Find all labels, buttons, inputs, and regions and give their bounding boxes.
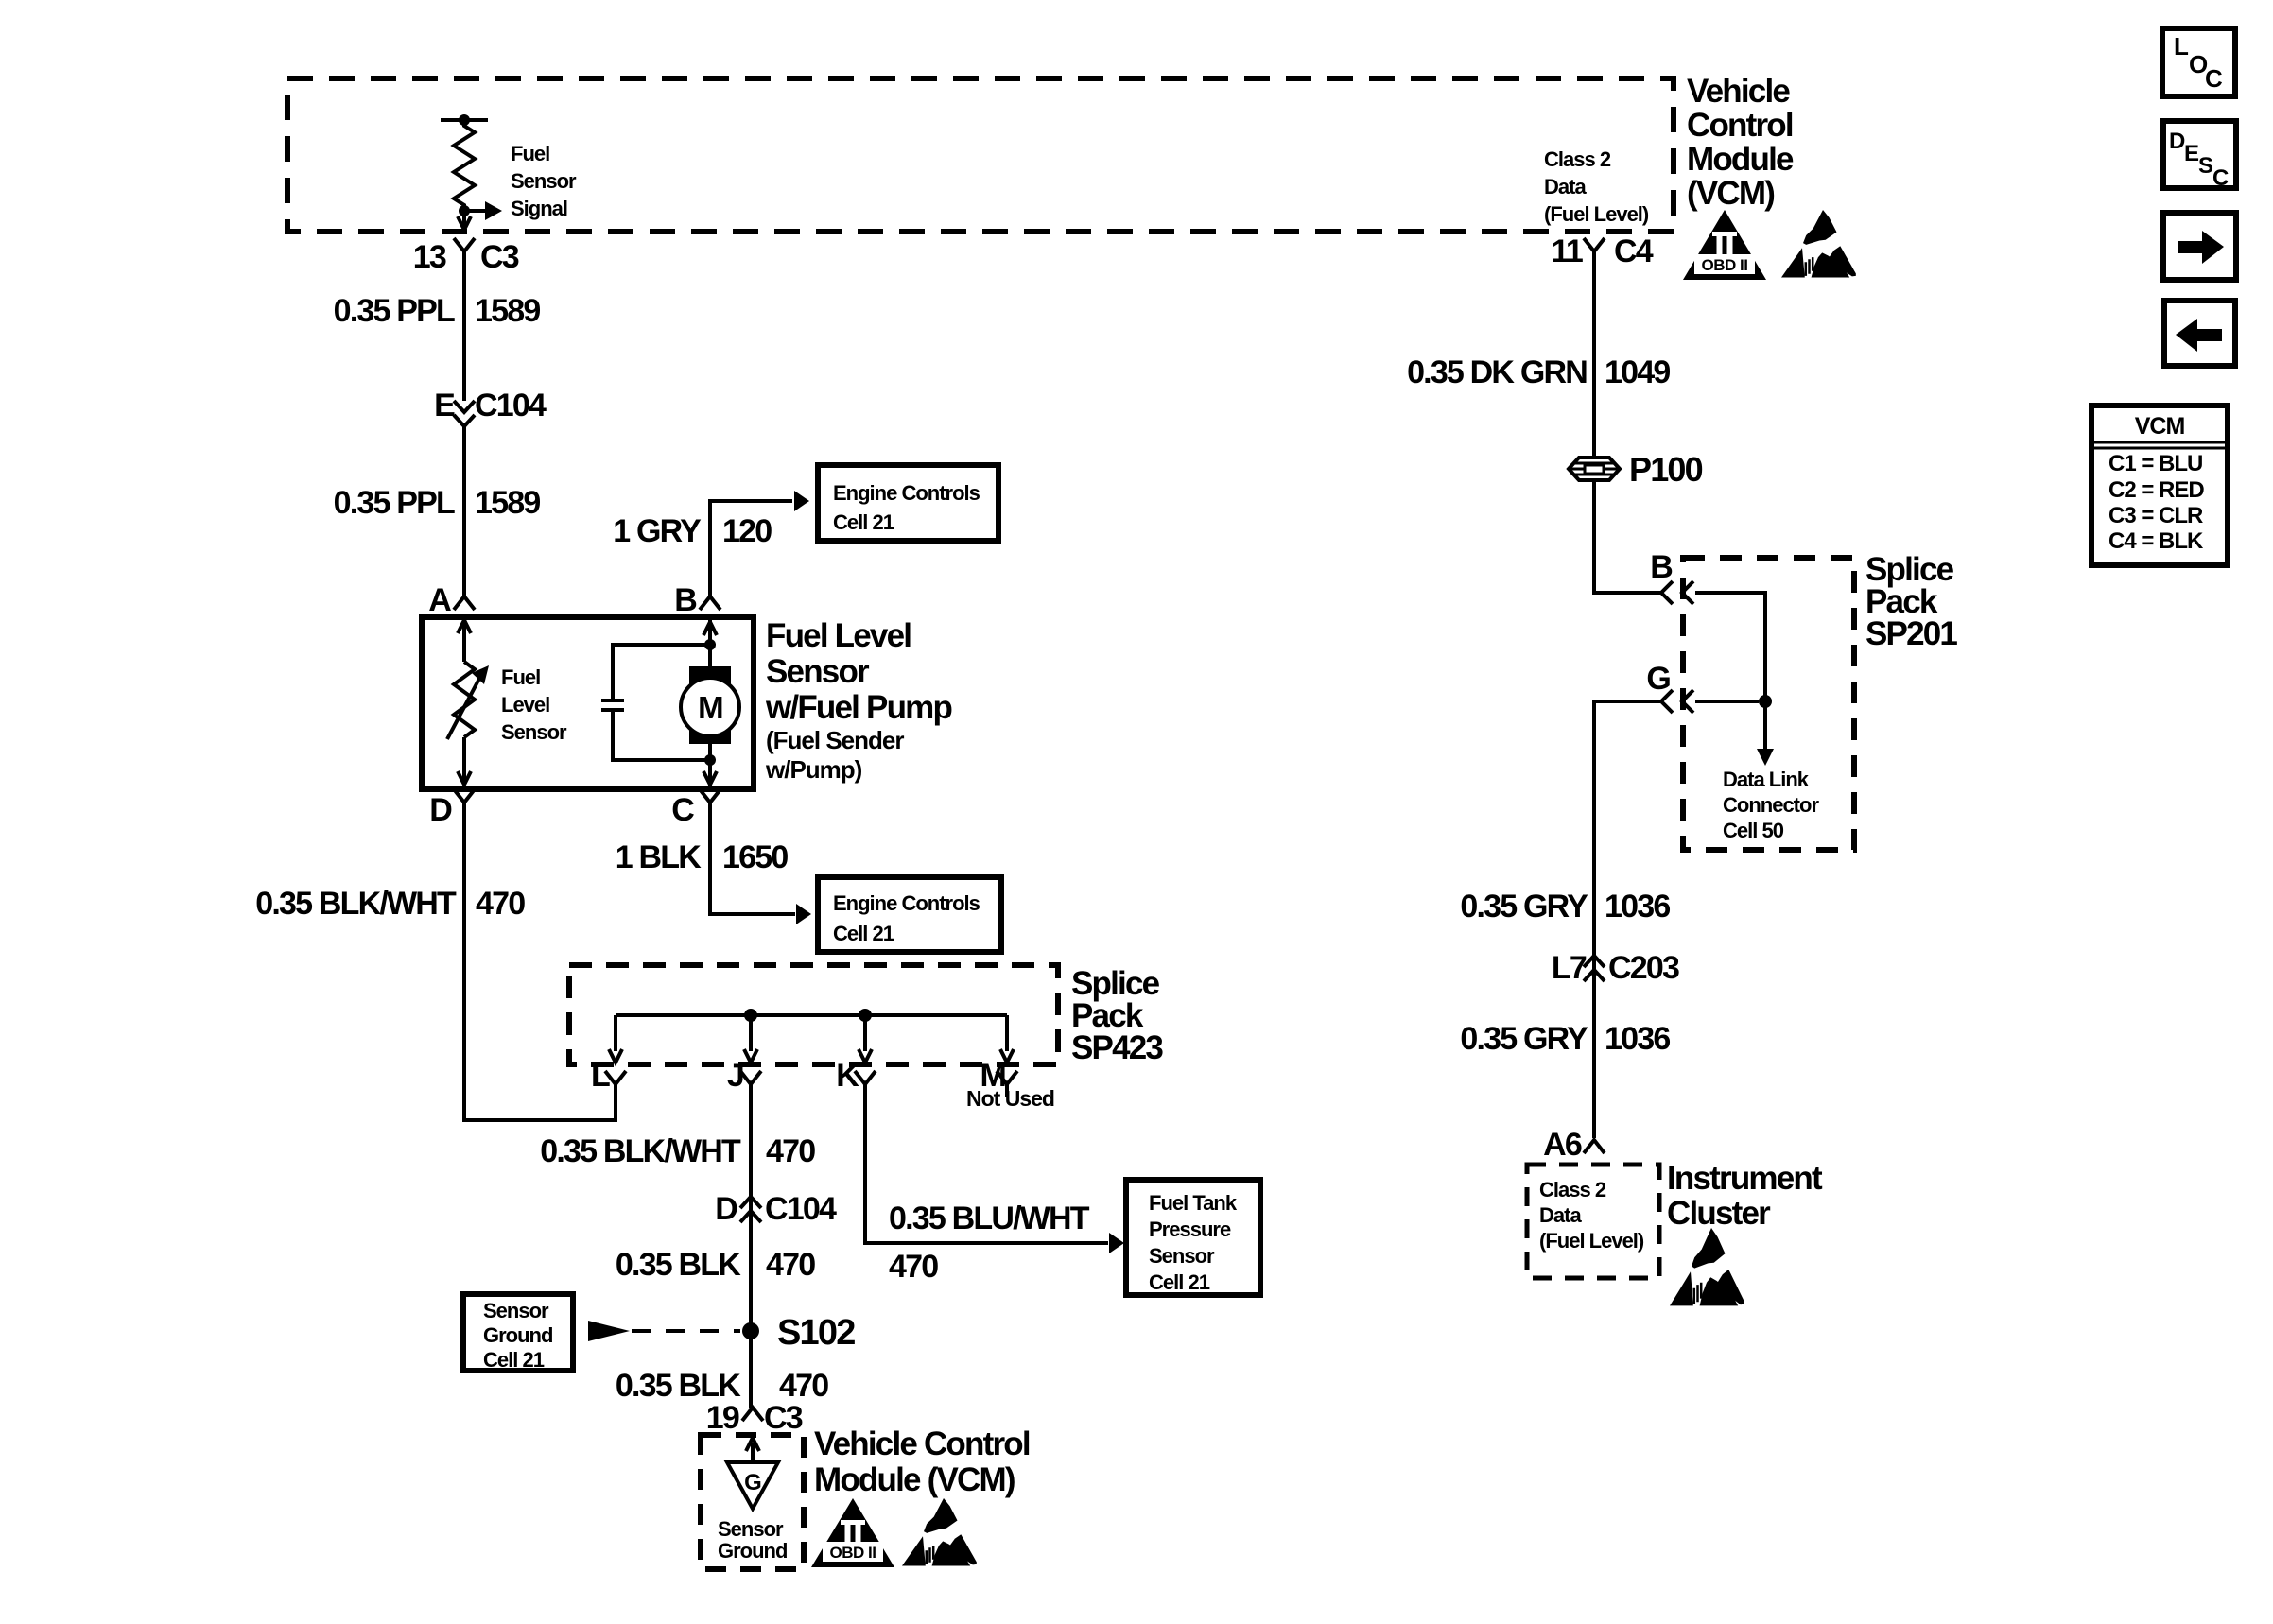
vehicle control module bottom dashed box: [701, 1435, 804, 1569]
svg-text:Cell 21: Cell 21: [1149, 1270, 1210, 1294]
fuel level sensor w/fuel pump component box: [422, 617, 754, 789]
svg-text:1 BLK: 1 BLK: [616, 839, 702, 875]
svg-text:M: M: [698, 690, 722, 725]
svg-text:C: C: [2205, 64, 2223, 93]
arrowhead from sensor ground ref: [588, 1321, 630, 1341]
svg-text:(VCM): (VCM): [1687, 175, 1774, 212]
resistor: fuel sensor signal pull-up, top bar with junction: [441, 118, 488, 122]
svg-text:Sensor: Sensor: [766, 653, 870, 690]
svg-text:Class 2: Class 2: [1539, 1178, 1606, 1201]
svg-text:Connector: Connector: [1723, 793, 1819, 817]
variable resistor fuel level sensor zigzag: [454, 662, 475, 737]
wire SP201 down to data link connector: [1763, 703, 1767, 751]
svg-text:Cell 21: Cell 21: [833, 922, 894, 945]
svg-text:(Fuel Sender: (Fuel Sender: [766, 726, 904, 754]
svg-text:Module: Module: [1687, 141, 1794, 178]
svg-text:C4 = BLK: C4 = BLK: [2108, 528, 2204, 554]
fuel pump motor M: [689, 666, 731, 744]
svg-text:0.35 PPL: 0.35 PPL: [334, 293, 455, 329]
svg-text:Fuel Level: Fuel Level: [766, 617, 911, 654]
wire 11C4 to P100: [1592, 265, 1596, 457]
splice S102 junction dot: [742, 1322, 759, 1339]
bus arrow K: [863, 1015, 867, 1051]
svg-text:Data Link: Data Link: [1723, 768, 1810, 791]
arrowhead into fuel tank pressure sensor: [1109, 1233, 1124, 1253]
svg-text:w/Pump): w/Pump): [765, 755, 862, 784]
OBD II symbol bottom: [811, 1498, 894, 1567]
svg-text:C104: C104: [765, 1191, 837, 1227]
svg-text:Class 2: Class 2: [1544, 147, 1611, 171]
svg-text:Ground: Ground: [718, 1539, 787, 1563]
svg-text:Fuel Tank: Fuel Tank: [1149, 1191, 1238, 1215]
VCM connector color legend table: [2091, 406, 2228, 565]
svg-text:0.35 GRY: 0.35 GRY: [1460, 889, 1588, 924]
OBD II symbol top: [1683, 210, 1766, 280]
bus arrow L: [614, 1015, 617, 1051]
svg-text:11: 11: [1552, 233, 1583, 269]
svg-text:C1 = BLU: C1 = BLU: [2108, 451, 2202, 476]
svg-text:0.35 DK GRN: 0.35 DK GRN: [1407, 354, 1587, 390]
svg-text:SP423: SP423: [1071, 1029, 1163, 1066]
junction dot motor top: [704, 639, 716, 650]
SP423 bus wire: [616, 1013, 1007, 1017]
down arrow at VCM box edge: [458, 216, 471, 230]
wire terminal B up to engine controls: [710, 501, 792, 596]
ESD symbol bottom: [902, 1498, 977, 1566]
svg-text:L7: L7: [1552, 950, 1587, 986]
arrowhead into engine controls 1: [794, 491, 809, 511]
svg-text:E: E: [2184, 141, 2199, 166]
reference box Fuel Tank Pressure Sensor Cell 21: [1126, 1180, 1260, 1295]
svg-text:470: 470: [766, 1247, 815, 1283]
wire C to engine controls 2: [710, 816, 795, 914]
svg-text:Pressure: Pressure: [1149, 1218, 1231, 1241]
svg-text:C: C: [671, 792, 694, 828]
svg-text:Level: Level: [501, 693, 549, 717]
svg-text:Sensor: Sensor: [718, 1517, 784, 1541]
svg-text:Cell 21: Cell 21: [483, 1348, 545, 1372]
sensor ground arrow up: [751, 1443, 755, 1460]
svg-text:Signal: Signal: [511, 197, 567, 220]
bus arrow J: [749, 1015, 753, 1051]
svg-text:470: 470: [779, 1368, 828, 1404]
dashed reference wire to S102: [632, 1329, 740, 1333]
svg-text:1 GRY: 1 GRY: [613, 513, 702, 549]
svg-text:B: B: [674, 582, 697, 618]
svg-text:C203: C203: [1608, 950, 1679, 986]
junction dot signal branch: [459, 205, 470, 216]
capacitor plates: [601, 699, 624, 702]
next arrow icon box: [2163, 213, 2236, 280]
junction dot SP201: [1759, 695, 1772, 708]
svg-text:(Fuel Level): (Fuel Level): [1544, 202, 1649, 226]
resistor zigzag element: [454, 120, 475, 227]
svg-text:C3 = CLR: C3 = CLR: [2108, 503, 2203, 528]
svg-text:A6: A6: [1543, 1127, 1582, 1163]
back arrow icon box: [2164, 301, 2235, 366]
svg-text:0.35 GRY: 0.35 GRY: [1460, 1021, 1588, 1057]
capacitor bottom lead: [613, 712, 708, 760]
svg-text:Sensor: Sensor: [511, 169, 577, 193]
DESC icon box: [2163, 121, 2236, 188]
svg-text:L: L: [2174, 32, 2189, 60]
svg-text:0.35 BLK: 0.35 BLK: [616, 1368, 741, 1404]
svg-text:(Fuel Level): (Fuel Level): [1539, 1229, 1644, 1253]
svg-text:Fuel: Fuel: [501, 665, 540, 689]
svg-text:D: D: [429, 792, 452, 828]
svg-text:Sensor: Sensor: [501, 720, 567, 744]
ESD symbol instrument cluster: [1670, 1228, 1744, 1305]
svg-text:Data: Data: [1539, 1203, 1582, 1227]
svg-text:SP201: SP201: [1865, 615, 1957, 652]
junction dot bus K: [859, 1009, 872, 1022]
svg-text:Vehicle: Vehicle: [1687, 73, 1790, 110]
svg-text:Fuel: Fuel: [511, 142, 549, 165]
svg-text:C3: C3: [764, 1400, 803, 1436]
svg-text:0.35 BLK/WHT: 0.35 BLK/WHT: [540, 1133, 741, 1169]
arrowhead to data link connector: [1757, 749, 1774, 766]
svg-text:D: D: [2169, 129, 2185, 154]
signal branch arrowhead: [485, 201, 502, 220]
LOC icon box: [2162, 28, 2235, 96]
svg-text:1650: 1650: [722, 839, 788, 875]
svg-text:0.35 BLK: 0.35 BLK: [616, 1247, 741, 1283]
svg-text:S102: S102: [777, 1313, 855, 1353]
svg-text:VCM: VCM: [2135, 413, 2185, 440]
svg-text:S: S: [2198, 153, 2213, 179]
svg-text:Engine Controls: Engine Controls: [833, 481, 980, 505]
svg-text:C104: C104: [475, 388, 547, 423]
ground triangle G: [727, 1462, 778, 1509]
svg-text:Data: Data: [1544, 175, 1587, 199]
wire G to instrument cluster A6: [1594, 701, 1660, 1138]
svg-text:Cell 50: Cell 50: [1723, 819, 1784, 842]
vehicle control module (VCM) top dashed box: [287, 78, 1674, 232]
svg-text:470: 470: [889, 1249, 938, 1285]
reference box Engine Controls Cell 21 (upper): [818, 465, 998, 541]
svg-text:1049: 1049: [1605, 354, 1670, 390]
svg-text:A: A: [428, 582, 451, 618]
svg-text:E: E: [434, 388, 455, 423]
svg-text:OBD II: OBD II: [1702, 256, 1748, 274]
wire SP201 internal B to junction: [1695, 593, 1765, 700]
svg-text:Sensor: Sensor: [483, 1299, 549, 1322]
svg-text:470: 470: [476, 886, 525, 922]
capacitor top lead: [613, 645, 708, 699]
svg-text:470: 470: [766, 1133, 815, 1169]
svg-text:G: G: [1646, 661, 1670, 697]
svg-text:w/Fuel Pump: w/Fuel Pump: [765, 689, 951, 726]
class 2 data dashed box instrument cluster: [1527, 1165, 1659, 1278]
variable resistor wiper arrow: [447, 675, 481, 739]
svg-text:C2 = RED: C2 = RED: [2108, 477, 2204, 503]
svg-text:Not Used: Not Used: [966, 1086, 1054, 1111]
svg-text:1589: 1589: [475, 293, 540, 329]
svg-text:C3: C3: [480, 239, 519, 275]
wire SP201 junction to G: [1695, 700, 1759, 703]
bus arrow M: [1005, 1015, 1009, 1051]
svg-text:B: B: [1650, 549, 1673, 585]
wire K to fuel tank pressure sensor: [865, 1097, 1108, 1243]
ESD symbol top: [1781, 210, 1856, 278]
svg-text:Vehicle Control: Vehicle Control: [814, 1425, 1030, 1462]
svg-text:P100: P100: [1629, 450, 1703, 489]
wire D down to splice pack terminal L: [464, 816, 616, 1120]
svg-text:Cluster: Cluster: [1667, 1195, 1771, 1232]
svg-text:19: 19: [706, 1400, 739, 1436]
svg-text:1036: 1036: [1605, 1021, 1670, 1057]
wire P100 to SP201 terminal B: [1594, 480, 1660, 593]
junction dot bus J: [744, 1009, 757, 1022]
junction dot motor bottom: [704, 754, 716, 766]
splice pack SP201 dashed box: [1683, 558, 1854, 850]
pass-through grommet P100: [1569, 458, 1620, 480]
reference box Sensor Ground Cell 21: [463, 1294, 573, 1371]
svg-text:G: G: [744, 1470, 761, 1495]
svg-text:0.35 BLK/WHT: 0.35 BLK/WHT: [255, 886, 457, 922]
svg-text:Engine Controls: Engine Controls: [833, 891, 980, 915]
wire A inside box with arrows: [462, 622, 466, 662]
wire 13C3 to EC104: [462, 265, 466, 401]
splice pack SP423 dashed box: [569, 965, 1058, 1064]
reference box Engine Controls Cell 21 (lower): [818, 877, 1001, 952]
svg-text:OBD II: OBD II: [830, 1544, 876, 1562]
svg-text:C4: C4: [1614, 233, 1654, 269]
svg-text:Module (VCM): Module (VCM): [814, 1461, 1015, 1498]
svg-text:C: C: [2212, 165, 2229, 191]
svg-text:120: 120: [722, 513, 772, 549]
svg-text:Instrument: Instrument: [1667, 1160, 1823, 1197]
wire J down to 19 C3: [749, 1097, 753, 1408]
svg-text:1036: 1036: [1605, 889, 1670, 924]
svg-text:0.35 PPL: 0.35 PPL: [334, 485, 455, 521]
svg-text:J: J: [727, 1058, 743, 1094]
svg-text:Ground: Ground: [483, 1323, 552, 1347]
svg-text:Cell 21: Cell 21: [833, 510, 894, 534]
wire motor to terminal C: [708, 744, 712, 787]
signal branch wire: [464, 209, 485, 213]
svg-text:Control: Control: [1687, 107, 1793, 144]
arrowhead into engine controls 2: [796, 904, 811, 924]
svg-text:13: 13: [413, 239, 446, 275]
svg-text:1589: 1589: [475, 485, 540, 521]
svg-text:Sensor: Sensor: [1149, 1244, 1215, 1268]
wire terminal B to motor: [708, 619, 712, 668]
svg-text:0.35 BLU/WHT: 0.35 BLU/WHT: [889, 1201, 1090, 1236]
svg-text:D: D: [715, 1191, 737, 1227]
wire EC104 to terminal A: [462, 426, 466, 596]
